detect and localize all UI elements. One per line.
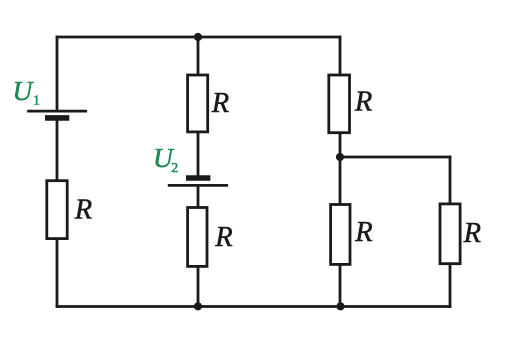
wire left branch middle: [56, 120, 59, 184]
wire far-right branch lower: [449, 262, 452, 307]
resistor R (far-right branch): [440, 204, 460, 264]
wire right branch lower: [339, 262, 342, 307]
junction dot right branch node: [336, 153, 344, 161]
resistor R (left branch): [47, 181, 67, 239]
resistor R (right branch top): [329, 75, 350, 133]
wire far-right branch upper: [449, 157, 452, 207]
wire middle branch between R and U2: [197, 131, 200, 176]
wire right branch upper: [339, 37, 342, 78]
wire left branch upper: [56, 37, 59, 110]
wire right branch middle: [339, 132, 342, 207]
svg-text:R: R: [214, 222, 232, 253]
svg-text:R: R: [354, 217, 372, 248]
resistor R (right branch bottom): [331, 205, 350, 265]
wire middle branch upper: [197, 37, 200, 78]
junction dot top middle node: [194, 33, 202, 41]
wire middle branch between U2 and R: [197, 187, 200, 210]
wire top horizontal: [57, 36, 340, 39]
svg-text:R: R: [354, 86, 372, 117]
label U1: [13, 75, 41, 108]
wire node to far-right branch: [340, 156, 450, 159]
resistor R (middle branch top): [188, 75, 208, 132]
wire middle branch lower: [197, 265, 200, 307]
svg-text:2: 2: [171, 161, 178, 176]
voltage source U2 (battery): [168, 178, 228, 185]
svg-text:R: R: [463, 218, 481, 249]
wire bottom horizontal: [57, 305, 450, 308]
junction dot bottom right node: [336, 302, 344, 310]
svg-text:R: R: [74, 195, 92, 226]
label U2: [153, 142, 178, 176]
svg-text:R: R: [211, 88, 229, 119]
junction dot bottom middle node: [194, 302, 202, 310]
svg-text:1: 1: [33, 93, 40, 108]
svg-text:U: U: [13, 75, 35, 106]
voltage source U1 (battery): [27, 111, 87, 118]
wire left branch lower: [56, 237, 59, 307]
resistor R (middle branch bottom): [188, 208, 207, 267]
